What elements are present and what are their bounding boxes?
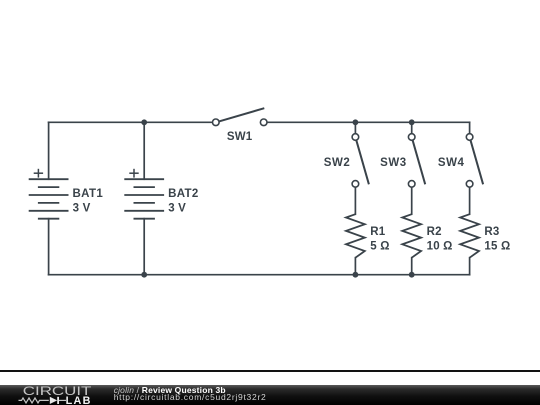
svg-text:15 Ω: 15 Ω (484, 241, 510, 253)
canvas bottom border line (0, 370, 540, 372)
BAT1 plus polarity mark (34, 169, 43, 178)
footer url line (114, 393, 267, 402)
logo diode (50, 397, 57, 404)
resistor R3 (460, 214, 479, 258)
wire top right horizontal (SW1 to SW4 corner) (267, 121, 470, 123)
svg-text:3 V: 3 V (73, 203, 91, 215)
svg-text:3 V: 3 V (168, 203, 186, 215)
BAT2 plus polarity mark (129, 169, 138, 178)
wire SW4 to R3 (469, 187, 471, 214)
svg-text:R1: R1 (370, 226, 386, 238)
footer author / title line (114, 386, 226, 395)
junction node bottom at R1 (353, 272, 359, 278)
wire stub above SW4 (469, 122, 471, 133)
resistor R2 (402, 214, 421, 258)
junction node bottom at BAT2 (141, 272, 147, 278)
junction node top at SW3 (409, 119, 415, 125)
wire R1 to bottom (354, 258, 356, 275)
wire top left horizontal (battery bank to SW1) (49, 121, 213, 123)
svg-text:10 Ω: 10 Ω (427, 241, 453, 253)
logo resistor zigzag (19, 398, 49, 403)
svg-text:BAT2: BAT2 (168, 188, 199, 200)
wire SW2 to R1 (354, 187, 356, 214)
svg-text:LAB: LAB (66, 395, 92, 405)
svg-text:BAT1: BAT1 (73, 188, 104, 200)
svg-text:SW3: SW3 (380, 157, 407, 169)
wire stub above SW2 (354, 122, 356, 133)
junction node top at SW2 (353, 119, 359, 125)
svg-text:SW4: SW4 (438, 157, 465, 169)
wire left vertical above BAT1 (48, 122, 50, 179)
resistor R1 (346, 214, 365, 258)
wire vertical above BAT2 (143, 122, 145, 179)
wire R2 to bottom (411, 258, 413, 275)
wire stub above SW3 (411, 122, 413, 133)
battery BAT2 (124, 179, 164, 219)
switch SW4 (466, 134, 483, 188)
svg-text:R3: R3 (484, 226, 499, 238)
wire R3 to bottom (469, 258, 471, 275)
wire bottom horizontal (ground return) (49, 274, 470, 276)
footer bar (0, 385, 540, 405)
junction node top at BAT2 (141, 119, 147, 125)
svg-text:R2: R2 (427, 226, 442, 238)
switch SW1 (213, 108, 268, 125)
junction node bottom at R2 (409, 272, 415, 278)
switch SW2 (352, 134, 369, 188)
wire left vertical below BAT1 (48, 219, 50, 275)
svg-text:SW1: SW1 (227, 131, 253, 143)
svg-text:SW2: SW2 (324, 157, 351, 169)
svg-text:5 Ω: 5 Ω (370, 241, 389, 253)
wire SW3 to R2 (411, 187, 413, 214)
switch SW3 (408, 134, 425, 188)
battery BAT1 (29, 179, 69, 219)
CircuitLab logo wordmark CIRCUIT (0, 385, 110, 405)
wire vertical below BAT2 (143, 219, 145, 275)
